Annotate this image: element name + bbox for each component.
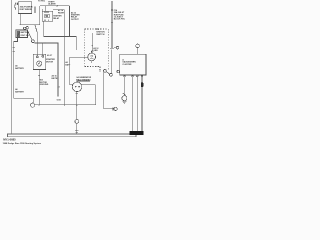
battery B+ terminal bracket bbox=[15, 3, 19, 10]
junction field stub at bus bbox=[76, 104, 77, 105]
cluster ground wires bbox=[133, 77, 142, 131]
svg-text:FIELD WINDING: FIELD WINDING bbox=[76, 79, 91, 81]
svg-text:BATTERY: BATTERY bbox=[21, 31, 30, 34]
label wire A0 battery lower bbox=[15, 88, 24, 93]
wire motor solenoid terminal feed bbox=[42, 43, 44, 55]
svg-text:Z1: Z1 bbox=[58, 87, 60, 89]
connector circle E bbox=[136, 44, 140, 54]
svg-text:GEN: GEN bbox=[93, 50, 98, 52]
svg-text:CLUSTER: CLUSTER bbox=[122, 64, 132, 66]
indicator lamp L1 with ground bbox=[122, 75, 127, 104]
wire B+ riser to top run bbox=[39, 6, 41, 25]
wire to starter motor B+ stud bbox=[35, 25, 37, 56]
label starter motor bbox=[46, 58, 55, 63]
wire battery negative run bbox=[13, 38, 34, 103]
svg-text:6G 37: 6G 37 bbox=[47, 55, 52, 57]
circuit breaker CB1 (power distribution center) bbox=[18, 2, 32, 14]
starter motor M1 bbox=[33, 54, 45, 69]
svg-text:SWITCH: SWITCH bbox=[96, 34, 105, 36]
connector circle on cluster left edge bbox=[117, 70, 120, 73]
svg-text:RELAY: RELAY bbox=[53, 17, 60, 20]
wire field top feed bbox=[77, 81, 90, 82]
label wire A1 bbox=[58, 9, 65, 14]
label to ignition switch bbox=[96, 29, 105, 36]
ground G100 drop with connector circle bbox=[75, 105, 79, 134]
label wire A0 sense bbox=[65, 61, 71, 67]
junction at motor feed bbox=[36, 42, 37, 43]
svg-text:BLOCK PDC: BLOCK PDC bbox=[114, 19, 126, 21]
label fuse F14 bbox=[114, 9, 126, 21]
cluster pin terminals bbox=[124, 75, 143, 77]
starter relay K1 bbox=[42, 11, 53, 21]
svg-text:BATTERY: BATTERY bbox=[15, 67, 24, 70]
label battery disconnect bbox=[21, 31, 30, 37]
label generator field bbox=[76, 76, 92, 81]
junction at relay output bbox=[69, 36, 70, 37]
battery disconnect switch S1 bbox=[16, 30, 28, 38]
terminal eyelets bbox=[23, 27, 28, 30]
wire generator output feed bbox=[91, 33, 93, 52]
relay K1 pin drops bbox=[42, 6, 46, 12]
label wire A4 bbox=[71, 11, 80, 21]
svg-text:MOTOR: MOTOR bbox=[46, 61, 54, 63]
wire to theft alarm module bbox=[40, 5, 70, 7]
wire disconnect output diagonal bbox=[28, 31, 32, 40]
ground bar G101 bbox=[129, 131, 143, 135]
label instrument cluster bbox=[122, 58, 136, 66]
junction on feed line bbox=[69, 13, 70, 14]
connector circle B bbox=[32, 40, 35, 43]
label wire A0 ground run bbox=[52, 75, 58, 80]
terminal T1 with connector circle D bbox=[110, 46, 119, 49]
svg-text:A0: A0 bbox=[65, 61, 67, 64]
svg-text:DIST BRKR: DIST BRKR bbox=[20, 9, 32, 11]
svg-text:OUTPUT: OUTPUT bbox=[71, 19, 80, 21]
svg-text:G101: G101 bbox=[57, 100, 61, 102]
wire solenoid feed with off-page arrow bbox=[34, 42, 59, 97]
ground bus wire bbox=[35, 85, 96, 105]
wire generator left feed bbox=[70, 57, 88, 84]
wire field ground stub bbox=[76, 92, 78, 105]
wire relay output to generator feed bbox=[44, 21, 77, 50]
svg-text:1998 Dodge Ram 1500 Starting S: 1998 Dodge Ram 1500 Starting System bbox=[3, 142, 41, 145]
svg-text:MY1-0685: MY1-0685 bbox=[3, 138, 16, 142]
wire field right lead bbox=[82, 84, 96, 86]
svg-text:DISC SW: DISC SW bbox=[21, 35, 29, 37]
wire feed line L1 bbox=[69, 6, 71, 37]
label theft alarm bbox=[48, 2, 56, 6]
ignition switch S2 bbox=[104, 50, 113, 77]
wire field left lead bbox=[70, 84, 73, 86]
label starter relay bbox=[53, 14, 62, 19]
label wire W4 motor ground bbox=[40, 78, 49, 86]
svg-text:TO PDC: TO PDC bbox=[38, 1, 46, 3]
wire relay aux output bbox=[53, 9, 65, 11]
label wire A2 generator bbox=[93, 47, 98, 52]
generator G1 bbox=[88, 53, 96, 63]
connector C100 pins right of breaker bbox=[35, 7, 36, 13]
label breaker value bbox=[20, 5, 33, 10]
label wire A0 battery upper bbox=[15, 64, 24, 70]
junction sense drop at bus bbox=[64, 104, 65, 105]
wire breaker output down bbox=[19, 14, 21, 25]
svg-text:BATTERY: BATTERY bbox=[15, 90, 24, 93]
wire switch output to connector bbox=[104, 72, 117, 110]
splice S200 bbox=[141, 82, 143, 87]
connector circle A on ground bus bbox=[30, 103, 34, 107]
generator field winding G2 bbox=[72, 82, 82, 92]
wire battery sense drop bbox=[63, 10, 65, 105]
dashed module boundary (voltage regulator / PCM) bbox=[85, 29, 109, 72]
svg-text:ALARM: ALARM bbox=[48, 3, 56, 6]
wire motor ground bbox=[38, 70, 39, 105]
svg-text:GROUND: GROUND bbox=[40, 84, 49, 86]
wire B+ feed horizontal bbox=[20, 24, 40, 26]
wire fused ignition feed bbox=[111, 1, 113, 48]
instrument cluster module box bbox=[120, 54, 146, 75]
svg-text:BATT: BATT bbox=[65, 63, 71, 66]
svg-text:BK/TN: BK/TN bbox=[52, 78, 58, 80]
svg-text:RD/WT: RD/WT bbox=[58, 12, 65, 14]
junction motor ground at bus bbox=[38, 104, 39, 105]
svg-text:A0: A0 bbox=[15, 64, 17, 67]
junction on ignition feed bbox=[111, 3, 112, 4]
